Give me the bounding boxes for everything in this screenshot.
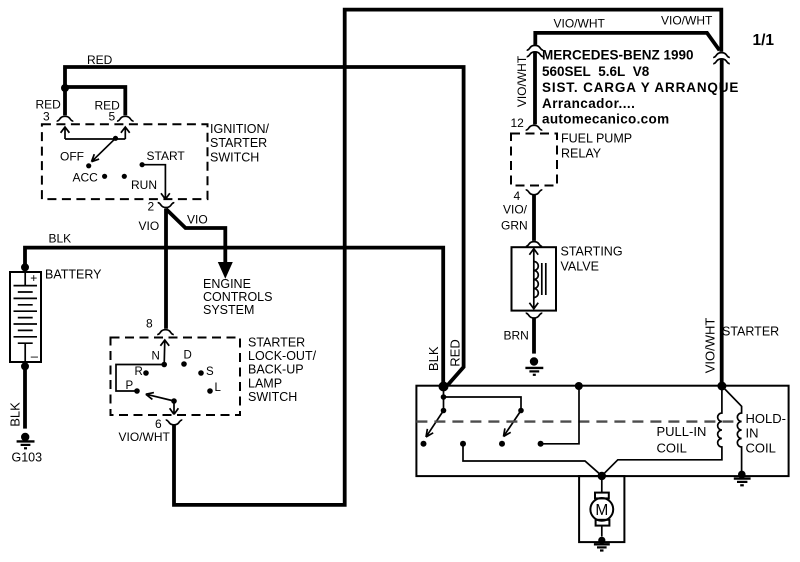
svg-text:VALVE: VALVE	[561, 259, 599, 273]
wire VIO/WHT branch to fuel pump relay	[535, 33, 719, 50]
svg-text:SWITCH: SWITCH	[248, 390, 297, 404]
svg-text:VIO/WHT: VIO/WHT	[554, 17, 606, 31]
svg-text:LOCK-OUT/: LOCK-OUT/	[248, 349, 317, 363]
contact S	[198, 370, 204, 376]
starter internal dashed line	[416, 420, 737, 422]
svg-text:BLK: BLK	[7, 402, 22, 427]
wire VIO/GRN relay to valve	[532, 195, 536, 241]
svg-text:SIST. CARGA Y ARRANQUE: SIST. CARGA Y ARRANQUE	[542, 80, 739, 95]
svg-text:GRN: GRN	[501, 219, 528, 233]
wire junction to motor	[601, 476, 603, 493]
svg-text:COIL: COIL	[657, 440, 687, 455]
pin 3 connector	[57, 116, 74, 121]
pin 12 connector	[526, 125, 543, 130]
svg-text:OFF: OFF	[60, 150, 84, 164]
svg-text:VIO: VIO	[187, 213, 208, 227]
svg-text:SWITCH: SWITCH	[210, 151, 259, 165]
inline connector lower left	[527, 52, 544, 57]
svg-text:VIO/WHT: VIO/WHT	[119, 430, 171, 444]
pin 6 connector	[166, 420, 183, 425]
pin 8 terminal arrow to N	[160, 340, 169, 365]
svg-text:N: N	[152, 351, 160, 363]
svg-text:SYSTEM: SYSTEM	[203, 303, 254, 317]
lockout rotor junction	[171, 398, 177, 404]
svg-text:VIO: VIO	[139, 219, 160, 233]
svg-text:VIO/WHT: VIO/WHT	[703, 318, 718, 374]
starter lock-out switch box	[111, 338, 241, 416]
wire START to pin 2 with arrow	[142, 165, 170, 200]
contact OFF	[86, 163, 91, 168]
svg-text:LAMP: LAMP	[248, 376, 282, 390]
inline connector upper right	[713, 53, 730, 58]
ignition terminal connecting line	[65, 138, 125, 140]
node starter main junction	[439, 382, 449, 392]
svg-text:BRN: BRN	[504, 329, 529, 343]
wire BLK battery to starter box	[25, 248, 443, 386]
starting valve bottom connector	[526, 313, 543, 318]
starting valve top connector	[526, 242, 543, 247]
svg-text:G103: G103	[12, 451, 43, 465]
svg-text:STARTING: STARTING	[561, 245, 623, 259]
svg-text:ACC: ACC	[73, 171, 99, 185]
ground G103	[17, 433, 35, 449]
starter internal feed line	[443, 387, 445, 411]
svg-text:STARTER: STARTER	[722, 325, 779, 339]
svg-text:RED: RED	[87, 53, 113, 67]
svg-text:Arrancador....: Arrancador....	[542, 96, 635, 111]
svg-text:STARTER: STARTER	[248, 336, 305, 350]
svg-text:VIO/WHT: VIO/WHT	[661, 14, 713, 28]
svg-text:2: 2	[148, 200, 155, 214]
svg-text:1/1: 1/1	[753, 32, 775, 49]
node motor junction	[598, 472, 606, 480]
svg-text:START: START	[147, 149, 186, 163]
contact D	[181, 361, 187, 367]
svg-text:FUEL PUMP: FUEL PUMP	[561, 132, 632, 146]
ignition/starter switch box	[42, 124, 208, 199]
wire VIO/WHT to pin 12	[533, 52, 537, 124]
ground motor	[594, 537, 610, 551]
pin 5 connector	[117, 116, 134, 121]
starter switch arm 1	[426, 411, 444, 438]
svg-text:3: 3	[43, 110, 50, 124]
wire BRN valve to ground	[532, 318, 536, 354]
wire RED vertical to pin 3	[63, 69, 67, 116]
svg-text:+: +	[30, 271, 37, 285]
starting valve core	[542, 263, 546, 295]
ignition rotor junction dot	[113, 136, 118, 141]
wire RED top horizontal and down to starter	[63, 67, 464, 386]
contact R	[143, 370, 149, 376]
wire N to P bracket	[116, 365, 164, 392]
motor M1	[590, 498, 613, 521]
node feed tap	[441, 394, 447, 400]
svg-text:IN: IN	[746, 426, 759, 441]
svg-text:D: D	[184, 350, 192, 362]
svg-text:STARTER: STARTER	[210, 136, 267, 150]
pin 8 connector	[157, 330, 174, 335]
wire motor to ground	[601, 526, 603, 537]
hold-in coil	[722, 386, 742, 471]
ground BRN	[525, 357, 543, 375]
motor brush bottom	[596, 520, 610, 526]
svg-text:5: 5	[109, 110, 116, 124]
svg-text:M: M	[595, 502, 608, 519]
wire RED branch to pin 5	[64, 87, 125, 115]
ignition rotor arm to OFF	[92, 138, 116, 161]
svg-text:BACK-UP: BACK-UP	[248, 363, 304, 377]
svg-text:12: 12	[511, 116, 525, 130]
arrow engine controls	[218, 262, 233, 279]
motor brush top	[595, 493, 609, 499]
wire BLK battery to ground	[23, 366, 27, 428]
lockout pin 6 arrow	[170, 401, 179, 414]
node starter VIO/WHT junction	[717, 382, 726, 391]
svg-text:VIO/WHT: VIO/WHT	[515, 55, 529, 107]
ground hold-in coil	[734, 471, 751, 486]
svg-text:–: –	[31, 349, 39, 364]
pull-in coil	[602, 386, 722, 476]
contact 4	[538, 441, 544, 447]
svg-text:BATTERY: BATTERY	[45, 268, 102, 282]
wire VIO branch to engine controls	[166, 209, 225, 263]
svg-text:IGNITION/: IGNITION/	[210, 122, 270, 136]
starter box	[416, 386, 788, 476]
node RED junction	[61, 84, 69, 92]
contact 1	[421, 441, 427, 447]
svg-text:4: 4	[514, 189, 521, 203]
wire VIO/WHT big loop pin6 to starter	[174, 10, 721, 505]
wire contact2 to motor junction	[463, 444, 602, 476]
svg-text:CONTROLS: CONTROLS	[203, 290, 272, 304]
node solenoid top junction	[575, 382, 583, 390]
svg-text:RED: RED	[95, 99, 121, 113]
starting valve plunger arrows	[529, 249, 538, 309]
wire contact4 to solenoid top	[541, 387, 579, 444]
starting valve box	[512, 247, 557, 310]
svg-text:BLK: BLK	[426, 346, 441, 371]
battery B1	[10, 271, 41, 364]
svg-text:8: 8	[146, 317, 153, 331]
lockout rotor arm toward P	[146, 393, 174, 401]
pin 4 connector	[526, 190, 543, 195]
svg-text:RELAY: RELAY	[561, 147, 602, 161]
inline connector upper left	[527, 45, 544, 50]
contact START	[140, 162, 145, 167]
motor enclosure	[579, 476, 624, 542]
contact 2	[460, 441, 466, 447]
fuel pump relay box	[511, 134, 557, 186]
svg-text:560SEL 5.6L V8: 560SEL 5.6L V8	[542, 64, 650, 79]
wire tap to second pivot	[444, 397, 522, 411]
svg-text:COIL: COIL	[746, 440, 776, 455]
ignition pin 3 terminal arrow	[61, 127, 70, 139]
inline connector lower right	[713, 59, 730, 64]
contact 3	[499, 441, 505, 447]
svg-text:HOLD-: HOLD-	[746, 411, 786, 426]
contact between ACC and RUN	[122, 174, 127, 179]
svg-text:L: L	[215, 382, 222, 394]
svg-text:S: S	[206, 366, 214, 378]
starter switch arm 2	[504, 411, 522, 437]
ignition pin 5 terminal arrow	[121, 127, 130, 139]
svg-text:6: 6	[155, 417, 162, 431]
wire VIO/WHT connector to starter box	[720, 59, 724, 385]
svg-text:automecanico.com: automecanico.com	[542, 112, 669, 127]
title block	[542, 48, 739, 127]
svg-text:PULL-IN: PULL-IN	[657, 424, 707, 439]
wire VIO pin2 down to pin 8	[164, 209, 168, 329]
svg-text:R: R	[135, 366, 143, 378]
contact L	[207, 388, 213, 394]
node pivot 1	[441, 408, 447, 414]
pin 2 connector	[158, 203, 175, 208]
svg-text:ENGINE: ENGINE	[203, 277, 251, 291]
node battery top junction	[21, 263, 29, 271]
node battery bottom junction	[21, 362, 29, 370]
contact N	[161, 362, 167, 368]
contact ACC	[102, 174, 107, 179]
svg-text:RED: RED	[447, 339, 462, 366]
svg-text:VIO/: VIO/	[503, 203, 528, 217]
svg-text:BLK: BLK	[49, 232, 72, 246]
svg-text:MERCEDES-BENZ 1990: MERCEDES-BENZ 1990	[542, 48, 694, 63]
node pivot 2	[518, 408, 524, 414]
svg-text:RUN: RUN	[131, 178, 157, 192]
contact P	[134, 388, 140, 394]
starting valve coil	[534, 262, 539, 298]
